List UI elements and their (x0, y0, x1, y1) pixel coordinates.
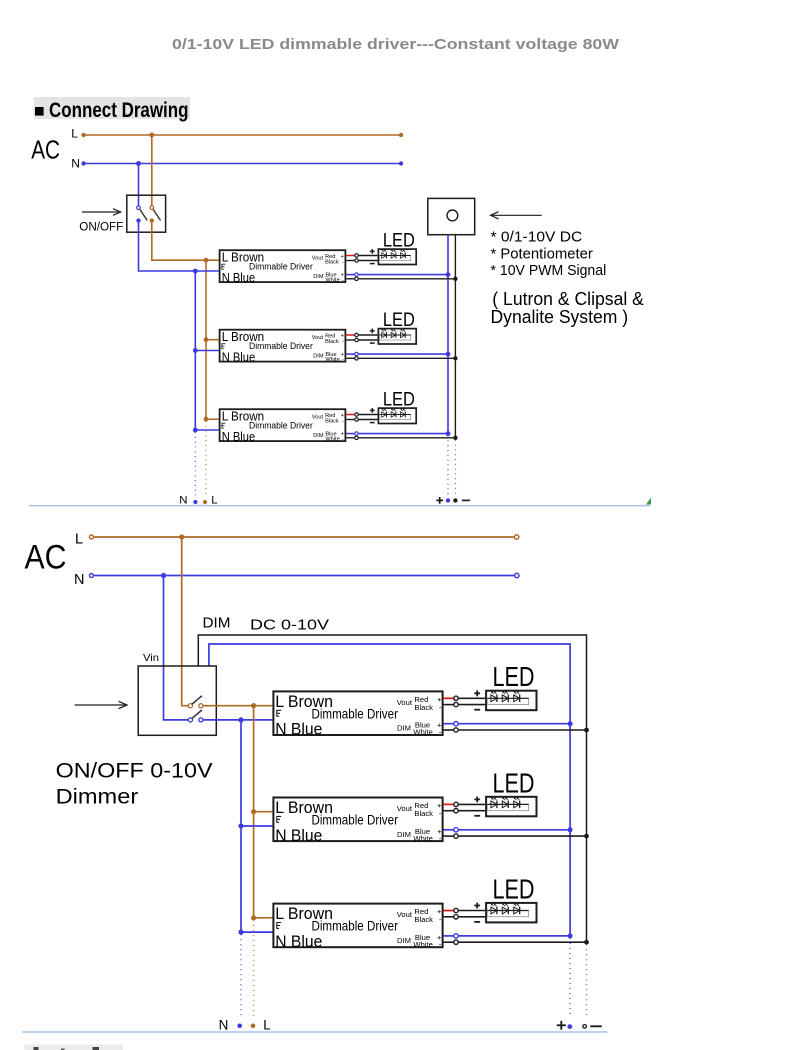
svg-text:DC 0-10V: DC 0-10V (250, 617, 329, 634)
svg-text:AC: AC (31, 136, 60, 164)
dotted N tail (bottom) (240, 934, 242, 1016)
LED module row 2 (top) (378, 329, 416, 344)
junction L to switch (top) (149, 133, 154, 138)
dimmer switch pole N (188, 710, 203, 722)
svg-text:LED: LED (493, 873, 535, 904)
node N dot (top bottom) (193, 500, 197, 504)
svg-text:Vin: Vin (143, 652, 159, 664)
driver U2 (bottom) (273, 798, 442, 845)
LED module row 2 (bottom) (486, 797, 536, 817)
minus terminal (bottom end) (590, 1025, 601, 1027)
wire DIM white row 2 (top) (346, 356, 457, 360)
svg-text:0/1-10V LED dimmable driver---: 0/1-10V LED dimmable driver---Constant v… (172, 36, 620, 53)
wire N mains (bottom) (89, 573, 519, 577)
svg-text:ON/OFF: ON/OFF (79, 220, 123, 234)
node dim+ dot (bottom end) (567, 1024, 572, 1029)
orange bus vertical (top) (205, 260, 207, 419)
plus sign row 3 (top) (370, 408, 375, 413)
junction N feed (bottom) (161, 573, 166, 578)
wire DIM blue row 2 (top) (346, 352, 450, 357)
wire L feed into switch (151, 135, 153, 206)
junction L row 1 (bottom) (251, 703, 256, 708)
wire Vout red row 2 (top) (346, 333, 377, 337)
wire DIM white row 1 (bottom) (444, 728, 589, 733)
node AC (top) (31, 127, 80, 171)
wire Vout black row 2 (top) (346, 338, 377, 342)
svg-text:N: N (219, 1017, 229, 1032)
svg-text:LED: LED (383, 309, 415, 331)
wire N feed into dimmer (164, 576, 189, 720)
wire DIM white row 2 (bottom) (444, 834, 589, 839)
separator line (bottom) (22, 1031, 607, 1033)
minus terminal (top bottom) (462, 499, 470, 501)
wire Vout black row 1 (bottom) (444, 702, 486, 706)
dotted L tail (bottom) (253, 920, 255, 1016)
wire N stub row 3 (top) (193, 428, 219, 433)
wire L stub row 2 (top) (204, 337, 219, 342)
wire Vout black row 2 (bottom) (444, 809, 486, 813)
svg-text:N: N (179, 495, 187, 507)
wire N stub row 2 (top) (193, 348, 219, 353)
wire N dimmer out (203, 719, 272, 721)
minus sign row 2 (bottom) (474, 815, 480, 817)
wire DIM white row 3 (bottom) (444, 940, 589, 945)
dotted dim- tail (top) (454, 440, 456, 496)
wire N stub row 1 (top) (193, 269, 219, 274)
svg-text:L: L (71, 127, 78, 141)
node dim+ dot (top bottom) (446, 498, 450, 502)
blue bus vertical (bottom) (240, 720, 242, 932)
plus sign row 2 (top) (370, 329, 375, 334)
wire DIM blue row 2 (bottom) (444, 827, 573, 832)
wire L dimmer out (203, 705, 272, 707)
wire L stub row 1 (top) (204, 258, 219, 263)
dotted dim+ tail (bottom) (569, 938, 571, 1016)
orange bus vertical (bottom) (253, 706, 255, 918)
wire Vout red row 2 (bottom) (444, 802, 486, 806)
wire N stub row 2 (bottom) (241, 825, 272, 827)
dim blue bus vertical (top right) (447, 235, 449, 434)
LED module row 1 (bottom) (486, 691, 536, 711)
driver U3 (bottom) (273, 904, 442, 951)
junction N row 3 (bottom) (238, 930, 243, 935)
svg-text:DIM: DIM (203, 615, 231, 632)
driver U2 (top) (220, 330, 346, 365)
svg-text:AC: AC (25, 538, 67, 576)
LED module row 3 (top) (378, 408, 416, 423)
potentiometer control box (428, 198, 475, 234)
minus sign row 3 (bottom) (474, 921, 480, 923)
wire Vout black row 1 (top) (346, 259, 377, 263)
minus sign row 1 (bottom) (474, 709, 480, 711)
driver U3 (top) (220, 409, 346, 444)
plus sign row 1 (bottom) (474, 690, 480, 696)
plus sign row 2 (bottom) (474, 797, 480, 803)
plus sign row 1 (top) (370, 249, 375, 254)
blue bus vertical (top) (194, 271, 196, 430)
svg-text:N: N (74, 572, 84, 588)
wire DIM blue row 3 (top) (346, 431, 450, 436)
wire N mains (top) (81, 161, 403, 165)
wire N stub row 3 (bottom) (241, 931, 272, 933)
switch S1 ON/OFF box (127, 195, 166, 232)
svg-text:ON/OFF 0-10V: ON/OFF 0-10V (56, 759, 214, 783)
wire Vout red row 3 (bottom) (444, 908, 486, 912)
dotted N tail (top) (194, 432, 196, 496)
wire L switch to orange bus (top) (152, 223, 206, 260)
plus sign row 3 (bottom) (474, 903, 480, 909)
node L dot (bottom end) (251, 1024, 256, 1029)
junction L row 2 (bottom) (251, 809, 256, 814)
svg-text:LED: LED (383, 388, 415, 410)
wire L mains (bottom) (89, 535, 518, 539)
junction L feed (bottom) (179, 534, 184, 539)
junction N row 1 (bottom) (238, 717, 243, 722)
wire N switch to blue bus (top) (139, 223, 196, 271)
dotted L tail (top) (205, 421, 207, 496)
separator line (top) (29, 505, 650, 507)
green mark (646, 498, 651, 505)
dotted dim- tail (bottom) (586, 944, 588, 1016)
wire DIM white row 3 (top) (346, 436, 457, 440)
minus sign row 1 (top) (370, 263, 375, 265)
svg-text:L: L (211, 495, 217, 507)
wire Vout red row 1 (bottom) (444, 696, 486, 700)
wire L stub row 3 (bottom) (254, 917, 273, 919)
svg-text:* Potentiometer: * Potentiometer (491, 246, 593, 262)
svg-text:Connect Drawing: Connect Drawing (49, 99, 189, 122)
svg-text:L: L (263, 1017, 271, 1032)
LED module row 1 (top) (378, 249, 416, 264)
node dim- ring (bottom end) (583, 1025, 587, 1029)
wire N feed into switch (138, 164, 140, 207)
junction N to switch (top) (136, 161, 141, 166)
dimmer switch pole L (188, 696, 203, 708)
minus sign row 3 (top) (370, 422, 375, 424)
node N dot (bottom end) (237, 1024, 242, 1029)
svg-text:* 10V PWM Signal: * 10V PWM Signal (491, 263, 607, 279)
svg-text:N: N (71, 156, 80, 170)
wire DIM white row 1 (top) (346, 277, 457, 281)
plus terminal (top bottom) (436, 497, 443, 504)
wire DIM blue row 1 (bottom) (444, 721, 573, 726)
junction L row 3 (bottom) (251, 915, 256, 920)
wire DIM blue row 1 (top) (346, 272, 450, 277)
next section header (cut off) (25, 1045, 124, 1050)
svg-text:* 0/1-10V DC: * 0/1-10V DC (491, 230, 583, 246)
node L dot (top bottom) (203, 500, 207, 504)
LED module row 3 (bottom) (486, 903, 536, 923)
plus terminal (bottom end) (557, 1021, 566, 1030)
wire Vout black row 3 (top) (346, 418, 377, 422)
svg-text:L: L (75, 531, 83, 547)
svg-text:Dimmer: Dimmer (56, 785, 139, 809)
arrow to switch S1 (82, 209, 121, 216)
junction N row 2 (bottom) (238, 823, 243, 828)
svg-text:Dynalite System ): Dynalite System ) (491, 306, 629, 327)
wire DIM blue row 3 (bottom) (444, 933, 573, 938)
dotted dim+ tail (top) (447, 436, 449, 496)
node AC (bottom) (25, 531, 85, 588)
svg-text:LED: LED (383, 229, 415, 251)
wire DIM black bus (bottom) (198, 635, 586, 942)
wire Vout red row 3 (top) (346, 413, 377, 417)
wire Vout red row 1 (top) (346, 254, 377, 258)
node dim- dot (top bottom) (453, 498, 457, 502)
wire L mains (top) (81, 133, 403, 137)
arrow to potentiometer (491, 212, 542, 219)
minus sign row 2 (top) (370, 342, 375, 344)
section header Connect Drawing (34, 97, 191, 122)
dim black bus vertical (top right) (454, 235, 456, 438)
wire DC blue bus (bottom) (209, 644, 570, 936)
svg-text:LED: LED (493, 767, 535, 798)
switch S1 pole L (orange) (150, 206, 161, 223)
driver U1 (bottom) (273, 691, 442, 738)
wire L stub row 3 (top) (204, 417, 219, 422)
switch S1 pole N (blue) (136, 206, 147, 223)
wire L stub row 2 (bottom) (254, 811, 273, 813)
driver U1 (top) (220, 250, 346, 285)
svg-text:LED: LED (493, 661, 535, 692)
dimmer box (138, 666, 216, 735)
wire Vout black row 3 (bottom) (444, 915, 486, 919)
arrow to dimmer (75, 701, 127, 708)
wire L feed into dimmer (182, 537, 188, 706)
